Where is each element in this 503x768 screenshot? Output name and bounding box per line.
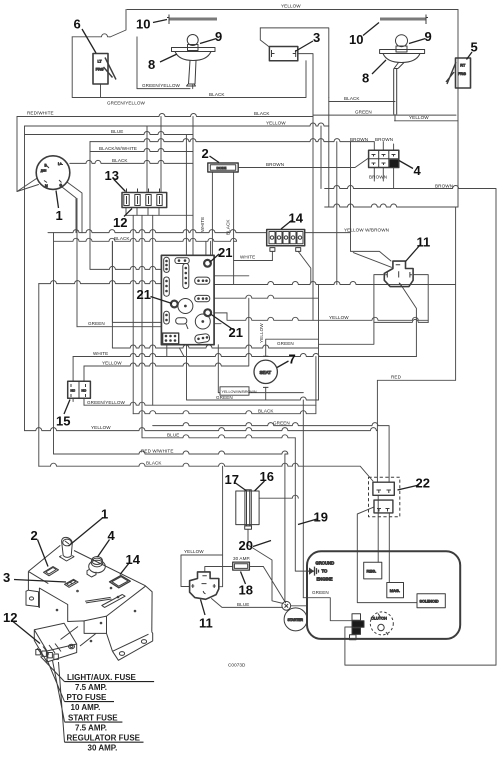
svg-text:9: 9 bbox=[215, 29, 222, 44]
relay 22 upper bbox=[373, 482, 394, 495]
fuse text block bbox=[65, 673, 155, 753]
diode box 2 bbox=[208, 163, 238, 172]
wire ignition G pin down bbox=[67, 182, 82, 233]
wire BROWN right long bbox=[325, 186, 496, 666]
wire relay upper to REG bbox=[377, 495, 379, 562]
svg-text:7.5 AMP.: 7.5 AMP. bbox=[75, 683, 107, 692]
wire GREEN y400-401 bbox=[187, 345, 319, 598]
wire long vertical bus C bbox=[53, 233, 55, 454]
svg-text:11: 11 bbox=[417, 235, 431, 250]
svg-text:BLACK/W/WHITE: BLACK/W/WHITE bbox=[99, 146, 137, 151]
wire vertical bus D bbox=[76, 199, 78, 327]
relay 22 dashed box bbox=[369, 477, 400, 517]
svg-text:WHITE: WHITE bbox=[240, 255, 255, 260]
svg-text:2: 2 bbox=[202, 146, 209, 161]
svg-text:LIGHT/AUX. FUSE: LIGHT/AUX. FUSE bbox=[67, 673, 137, 682]
svg-text:ENGINE: ENGINE bbox=[317, 577, 333, 582]
svg-text:LT: LT bbox=[98, 60, 103, 64]
wire YELLOW to conn11 bottom bbox=[181, 555, 223, 587]
relay 22 lower bbox=[374, 500, 393, 513]
wire second right line y207 bbox=[325, 204, 458, 207]
svg-text:3: 3 bbox=[3, 570, 10, 585]
wire y312.9 right of module bbox=[214, 312, 227, 314]
wire BLACK right lamp bbox=[329, 101, 395, 103]
wire comp15 bottom to green/yellow bbox=[73, 398, 84, 405]
wire y360 route bbox=[319, 322, 374, 344]
wire bottom of ignition long line bbox=[48, 230, 351, 233]
svg-text:YELLOW: YELLOW bbox=[329, 315, 349, 320]
wire BLUE starter bbox=[212, 599, 282, 608]
wire verticals to module from top bbox=[186, 117, 193, 256]
wire block4 bottom pins bbox=[374, 168, 383, 182]
svg-text:BLUE: BLUE bbox=[237, 602, 249, 607]
connector 11 top bbox=[384, 261, 413, 287]
bulb 9 left bbox=[187, 35, 198, 51]
wire conn11 to red route bbox=[400, 284, 416, 357]
svg-text:30 AMP.: 30 AMP. bbox=[88, 744, 118, 753]
svg-text:19: 19 bbox=[314, 510, 328, 525]
svg-text:FRG: FRG bbox=[458, 72, 466, 76]
svg-text:MAG.: MAG. bbox=[390, 588, 400, 593]
wire bundle verticals mid bbox=[313, 98, 329, 321]
wire left frame vertical bbox=[16, 117, 18, 192]
svg-text:22: 22 bbox=[416, 476, 430, 491]
wire y323.7 stub bbox=[214, 323, 221, 325]
wire RED/WHITE + BLACK ladder line bbox=[17, 114, 313, 117]
starter motor bbox=[284, 608, 307, 631]
wire BLACK line y241 bbox=[54, 238, 237, 241]
panel slots and screws bbox=[85, 591, 111, 610]
svg-text:BLUE: BLUE bbox=[167, 433, 179, 438]
svg-text:8: 8 bbox=[362, 71, 369, 86]
svg-text:RT: RT bbox=[460, 64, 466, 68]
wire BLUE ladder line bbox=[25, 132, 194, 135]
controller module 21 bbox=[161, 255, 214, 344]
engine outline bbox=[307, 551, 460, 639]
wire GREEN/YELLOW from left lamp bbox=[137, 88, 190, 90]
wire RED y380 bbox=[378, 379, 456, 381]
wire block4 top pins bbox=[374, 142, 393, 151]
rocker switch 2 on panel bbox=[44, 567, 59, 576]
console left foot bbox=[26, 590, 39, 606]
wire long vertical bus B bbox=[38, 284, 40, 467]
wire diode pins down to module bbox=[212, 172, 233, 285]
wire fuse feed verticals bbox=[147, 117, 161, 193]
wire GREEN right bbox=[313, 114, 456, 116]
ground to engine symbol bbox=[309, 561, 335, 582]
svg-text:12: 12 bbox=[3, 610, 17, 625]
wire box around LT FRG right vertical bbox=[136, 37, 138, 89]
svg-text:BROWN: BROWN bbox=[435, 184, 453, 189]
svg-text:YELLOW: YELLOW bbox=[91, 425, 111, 430]
regulator box bbox=[364, 562, 382, 579]
svg-text:C0073D: C0073D bbox=[228, 663, 246, 668]
svg-text:6: 6 bbox=[74, 17, 81, 32]
svg-text:3: 3 bbox=[313, 30, 320, 45]
wire colour labels bbox=[27, 4, 453, 668]
wire clutch to bottom loop bbox=[345, 627, 496, 665]
solenoid box bbox=[417, 594, 445, 608]
PTO knob 4 on panel bbox=[87, 557, 105, 578]
wire yellow/brown drop to conn 11 bbox=[351, 233, 392, 261]
connector block 4 bbox=[369, 150, 399, 167]
wire box around LT FRG top bbox=[72, 34, 110, 37]
svg-text:BLACK: BLACK bbox=[146, 461, 162, 466]
svg-text:BLACK: BLACK bbox=[209, 92, 225, 97]
svg-text:RED: RED bbox=[391, 375, 402, 380]
svg-text:DIODE: DIODE bbox=[217, 166, 227, 170]
connector 11 bottom bbox=[190, 572, 219, 599]
wire vertical x295.3 from blue bbox=[294, 438, 296, 498]
svg-text:BLUE: BLUE bbox=[111, 129, 123, 134]
svg-text:21: 21 bbox=[229, 325, 243, 340]
svg-text:10: 10 bbox=[349, 32, 363, 47]
svg-text:21: 21 bbox=[218, 245, 232, 260]
svg-text:WHITE: WHITE bbox=[200, 217, 205, 232]
wire drop from top frame to lamp box 6 bbox=[110, 10, 126, 38]
wire BLUE y441.9 bbox=[142, 435, 295, 438]
fuse label leaders bbox=[41, 657, 65, 743]
svg-text:11: 11 bbox=[199, 616, 213, 631]
svg-text:15: 15 bbox=[56, 414, 70, 429]
svg-text:21: 21 bbox=[137, 287, 151, 302]
wire relay lower to solenoid bbox=[357, 507, 417, 603]
svg-text:1: 1 bbox=[101, 507, 108, 522]
svg-text:GREEN: GREEN bbox=[312, 590, 329, 595]
svg-text:L+: L+ bbox=[58, 162, 62, 166]
svg-text:YELLOW: YELLOW bbox=[409, 115, 429, 120]
headlight 8 right bbox=[380, 50, 425, 115]
fuel solenoid 16/17 bbox=[236, 490, 259, 530]
switch 15 NC/NO bbox=[68, 381, 91, 398]
svg-text:GREEN: GREEN bbox=[273, 421, 290, 426]
svg-text:FRG: FRG bbox=[96, 68, 104, 72]
wire YELLOW top frame bbox=[127, 9, 458, 11]
svg-text:20: 20 bbox=[239, 538, 253, 553]
svg-text:5: 5 bbox=[471, 40, 478, 55]
svg-text:BLACK: BLACK bbox=[226, 219, 231, 235]
light bar 10 right bbox=[380, 15, 428, 25]
svg-text:REG.: REG. bbox=[367, 568, 377, 573]
svg-text:GROUND: GROUND bbox=[316, 561, 335, 566]
svg-text:4: 4 bbox=[414, 163, 422, 178]
svg-text:YELLOW: YELLOW bbox=[184, 549, 204, 554]
svg-text:7.5 AMP.: 7.5 AMP. bbox=[75, 724, 107, 733]
svg-text:YELLOW W/BROWN: YELLOW W/BROWN bbox=[344, 228, 389, 233]
wire BLACK from ignition bbox=[70, 160, 193, 163]
svg-text:10 AMP.: 10 AMP. bbox=[71, 703, 101, 712]
wire right lamp stem down bbox=[394, 115, 396, 121]
wire comp15 pins up bbox=[73, 357, 84, 382]
wire comp14 left pin down bbox=[271, 251, 273, 260]
wire Y/W/BROWN y392.6 bbox=[218, 345, 303, 393]
wire vertical into fuse top left bbox=[90, 142, 161, 270]
svg-text:GREEN/YELLOW: GREEN/YELLOW bbox=[107, 101, 146, 106]
svg-text:PTO FUSE: PTO FUSE bbox=[67, 693, 108, 702]
switch box 5 RT FRG bbox=[446, 58, 471, 88]
wire ignition M pin down bbox=[62, 187, 76, 233]
svg-text:YELLOW: YELLOW bbox=[102, 361, 122, 366]
light bar 10 left bbox=[167, 15, 217, 25]
wire diagonal into conn11 bbox=[353, 253, 391, 268]
wire y284.5 right of module bbox=[214, 282, 455, 285]
svg-text:YELLOW: YELLOW bbox=[259, 323, 264, 343]
wire YELLOW y368.4 bbox=[84, 298, 249, 366]
svg-text:GREEN/YELLOW: GREEN/YELLOW bbox=[87, 400, 126, 405]
svg-text:NO: NO bbox=[82, 389, 87, 393]
wire BLACK y413.5 bbox=[133, 357, 316, 414]
svg-text:YELLOW: YELLOW bbox=[266, 121, 286, 126]
svg-text:SOLENOID: SOLENOID bbox=[420, 599, 439, 603]
svg-text:TO: TO bbox=[322, 569, 328, 574]
svg-text:GREEN: GREEN bbox=[216, 395, 233, 400]
svg-text:BLACK: BLACK bbox=[254, 111, 270, 116]
wire 20 from comp16 to starter bbox=[248, 529, 283, 603]
console left edge and fold bbox=[28, 571, 48, 590]
connector 14 bbox=[267, 230, 305, 252]
svg-text:NC: NC bbox=[71, 389, 76, 393]
wire comp14 right pin down bbox=[298, 251, 311, 283]
wire left lamp stem to green/yellow bbox=[192, 85, 194, 89]
svg-text:SEAT: SEAT bbox=[260, 370, 272, 375]
wire GREEN/YELLOW long under lamps bbox=[72, 61, 306, 98]
wire right vertical to red bbox=[455, 207, 457, 380]
wire pointer into ignition bbox=[17, 179, 39, 192]
wire long vertical left bus A bbox=[24, 126, 26, 431]
svg-text:YELLOW/W/BROWN: YELLOW/W/BROWN bbox=[222, 390, 257, 394]
wire GREEN y347.7 below module bbox=[112, 345, 318, 348]
svg-text:13: 13 bbox=[105, 168, 119, 183]
ignition switch 1 bbox=[36, 156, 70, 190]
wire comp16 right to ground line bbox=[259, 495, 308, 571]
wire from box3 right pin down bundle bbox=[298, 54, 313, 117]
headlight 8 left bbox=[172, 48, 216, 87]
wire conn11b top pin to fuse18 bbox=[205, 567, 263, 572]
console front staircase with notch bbox=[39, 588, 113, 651]
wire GREEN into engine bbox=[303, 598, 352, 621]
console panel top face bbox=[28, 545, 152, 632]
svg-text:30 AMP.: 30 AMP. bbox=[233, 556, 250, 561]
svg-text:STARTER: STARTER bbox=[288, 618, 304, 622]
wire module left verticals bbox=[112, 215, 152, 437]
svg-text:GREEN/YELLOW: GREEN/YELLOW bbox=[142, 83, 181, 88]
svg-text:RED/WHITE: RED/WHITE bbox=[27, 111, 54, 116]
clutch bbox=[370, 612, 393, 635]
svg-text:BLACK: BLACK bbox=[114, 236, 130, 241]
wire relay lower to MAG bbox=[388, 513, 390, 583]
wire WHITE y359.5 bbox=[73, 345, 416, 357]
wire conn11 bottom edge bbox=[374, 319, 428, 322]
svg-text:GREEN: GREEN bbox=[88, 321, 105, 326]
svg-text:16: 16 bbox=[260, 469, 274, 484]
svg-text:7: 7 bbox=[289, 352, 296, 367]
wire GREEN y425.6 bbox=[153, 423, 389, 483]
clutch connector stack bbox=[350, 614, 365, 640]
svg-text:GREEN: GREEN bbox=[355, 110, 372, 115]
wire YELLOW y431.8 to relay fork bbox=[25, 428, 378, 431]
svg-text:12: 12 bbox=[113, 215, 127, 230]
wire y283.6 left of module bbox=[39, 281, 162, 284]
svg-text:10: 10 bbox=[136, 17, 150, 32]
wire box 3 surround pentagon bbox=[260, 28, 269, 47]
svg-text:BROWN: BROWN bbox=[375, 137, 393, 142]
svg-text:8: 8 bbox=[148, 57, 155, 72]
wire y298 right of module bbox=[214, 295, 318, 298]
wire y322.4 into module bbox=[112, 241, 161, 322]
fuse holder 12 3D bbox=[34, 623, 76, 662]
svg-text:BLACK: BLACK bbox=[112, 158, 128, 163]
wire box around LT FRG left vertical bbox=[71, 37, 73, 98]
socket 14 on panel bbox=[110, 576, 131, 588]
svg-text:B: B bbox=[45, 164, 47, 168]
starter solenoid terminal bbox=[282, 601, 291, 610]
svg-text:18: 18 bbox=[239, 583, 253, 598]
svg-text:17: 17 bbox=[225, 472, 239, 487]
wire seat top pin up bbox=[266, 339, 319, 356]
wire LT FRG bottom lead bbox=[100, 84, 102, 98]
svg-text:BLACK: BLACK bbox=[258, 409, 274, 414]
wire WHITE right of module bbox=[234, 260, 273, 262]
wire starter terminal to engine bbox=[291, 605, 307, 607]
connector box 3 bbox=[269, 47, 297, 61]
wire fuse block lower pins bbox=[126, 208, 159, 216]
wire ladder right of module y275.8 bbox=[214, 275, 249, 277]
wire GREEN y326.7 bbox=[77, 326, 161, 328]
wire BROWN from diode to block4 bbox=[238, 158, 368, 168]
svg-text:WHITE: WHITE bbox=[93, 351, 108, 356]
svg-text:IGN: IGN bbox=[41, 169, 46, 173]
wire seat bottom pin down bbox=[265, 387, 267, 400]
svg-text:4: 4 bbox=[108, 528, 116, 543]
svg-text:RED W/WHITE: RED W/WHITE bbox=[141, 449, 174, 454]
wire module top pin stubs bbox=[206, 241, 211, 255]
wire YELLOW ladder line bbox=[25, 123, 329, 126]
wire under fuse block bbox=[126, 214, 193, 216]
svg-text:BROWN: BROWN bbox=[266, 162, 284, 167]
console middle folds bbox=[84, 586, 145, 633]
wire right frame vertical to RT FRG bbox=[457, 10, 459, 121]
wire long feed line y141 bbox=[90, 139, 374, 142]
wire RED/W/WHITE y455 bbox=[54, 451, 288, 602]
svg-text:GREEN: GREEN bbox=[277, 341, 294, 346]
wire y320.3 YELLOW right bbox=[227, 313, 428, 320]
wire fuse18 to solenoid terminal bbox=[263, 567, 285, 603]
svg-text:BROWN: BROWN bbox=[350, 137, 368, 142]
magneto box bbox=[387, 583, 404, 598]
switch 3 on panel bbox=[65, 579, 79, 587]
inline fuse 18 bbox=[233, 562, 250, 570]
fuse block 13/12 bbox=[122, 189, 167, 208]
console right foot bbox=[113, 632, 153, 660]
svg-text:M: M bbox=[45, 184, 48, 188]
wire vertical x221.6 bbox=[222, 466, 224, 555]
seat switch 7 bbox=[254, 356, 277, 387]
wire BLACK y466.7 bbox=[39, 463, 373, 481]
wire conn11 top surround box bbox=[374, 275, 428, 323]
svg-text:1: 1 bbox=[56, 208, 63, 223]
svg-text:BLACK: BLACK bbox=[344, 96, 360, 101]
svg-text:2: 2 bbox=[31, 528, 38, 543]
leader lines console to fuse block bbox=[61, 627, 97, 647]
callout numbers and leaders bbox=[3, 17, 478, 644]
svg-text:REGULATOR FUSE: REGULATOR FUSE bbox=[67, 734, 141, 743]
svg-text:BROWN: BROWN bbox=[369, 175, 387, 180]
wire YELLOW right lamp bbox=[395, 121, 459, 207]
wire relay feed verticals bbox=[376, 380, 378, 482]
wire GREEN/YELLOW y405.2 bbox=[84, 402, 316, 405]
wire y344.3 route bbox=[318, 285, 320, 401]
key switch on panel bbox=[60, 537, 75, 561]
wire BLACK/W/WHITE line bbox=[90, 149, 193, 152]
svg-text:START FUSE: START FUSE bbox=[68, 714, 118, 723]
svg-text:YELLOW: YELLOW bbox=[281, 4, 301, 9]
svg-text:14: 14 bbox=[126, 552, 141, 567]
svg-text:14: 14 bbox=[289, 211, 304, 226]
switch box 6 LT FRG bbox=[93, 54, 116, 85]
bulb 9 right bbox=[396, 35, 408, 52]
svg-text:9: 9 bbox=[425, 29, 432, 44]
